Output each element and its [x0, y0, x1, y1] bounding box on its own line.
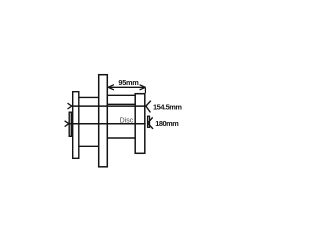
- left large disc flange: [99, 75, 108, 167]
- 180mm arrowhead (points left): [148, 117, 153, 128]
- right disc flange: [135, 94, 145, 154]
- svg-text:Disc: Disc: [120, 118, 134, 125]
- barrel line mid between flanges: [107, 103, 135, 105]
- small bracket bar (outer left, hub tick): [69, 112, 71, 136]
- extension tick under right arrowhead: [144, 87, 146, 93]
- svg-text:95mm: 95mm: [118, 78, 139, 87]
- long core line (154.5mm dimension line): [72, 105, 146, 107]
- 95mm dimension line: [108, 86, 145, 88]
- barrel line upper between flanges: [107, 94, 135, 96]
- left small flange bar: [73, 92, 79, 159]
- 154.5mm arrowhead (points left): [146, 101, 151, 113]
- svg-text:180mm: 180mm: [155, 119, 179, 128]
- barrel line upper left gap: [79, 96, 98, 98]
- barrel line lower left gap: [79, 145, 98, 147]
- 95mm right arrowhead: [140, 85, 146, 90]
- small tick rectangle right of right flange: [148, 116, 150, 127]
- left arrowhead at bracket bar (points right): [65, 121, 69, 127]
- barrel line lower between flanges: [107, 137, 135, 139]
- 95mm left arrowhead: [108, 85, 114, 90]
- long core line (180mm dimension line): [69, 123, 146, 125]
- left arrowhead at small flange (points right): [68, 103, 72, 109]
- svg-text:154.5mm: 154.5mm: [153, 102, 182, 111]
